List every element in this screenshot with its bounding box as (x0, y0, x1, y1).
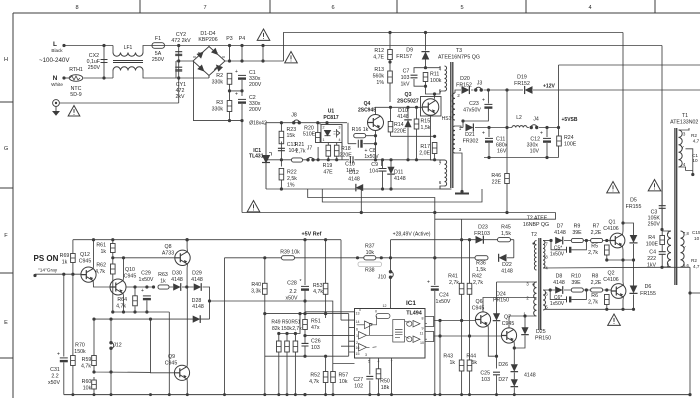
transformer T3 secondary upper (452, 93, 455, 120)
wires TL494 outputs (425, 317, 440, 342)
svg-text:4,7: 4,7 (693, 264, 700, 269)
wires C28 column (304, 240, 306, 314)
junction D24 bottom (495, 355, 498, 358)
svg-text:D23: D23 (478, 225, 488, 231)
wire emitter rail 2 (545, 308, 634, 310)
inductor L2 (512, 126, 527, 128)
R51 labels (311, 319, 321, 332)
resistor R20 (316, 133, 321, 143)
C15 labels (691, 230, 700, 269)
wire D12 drop (360, 189, 362, 213)
svg-text:4,7k: 4,7k (81, 364, 91, 370)
junction bank bottom (228, 119, 244, 122)
svg-text:R38: R38 (365, 268, 375, 274)
svg-text:2: 2 (457, 93, 460, 98)
T3 labels (438, 48, 480, 61)
svg-text:C9: C9 (371, 162, 378, 168)
svg-text:R39 10k: R39 10k (280, 250, 300, 256)
svg-text:R43: R43 (443, 354, 453, 360)
wire x224 column (224, 258, 226, 395)
Q4 labels (358, 101, 376, 114)
svg-text:2,7k: 2,7k (296, 148, 306, 154)
wire R22 bottom (280, 180, 282, 189)
T1 labels (670, 113, 700, 126)
transformer T3 primary upper (445, 66, 447, 91)
svg-text:C4106: C4106 (603, 277, 619, 283)
diode D26 (511, 364, 519, 371)
wire T1 aux pin4 (679, 167, 686, 171)
svg-text:R18: R18 (341, 146, 351, 152)
svg-text:4: 4 (588, 5, 591, 11)
wires D10 R15 columns (391, 107, 417, 160)
F1 labels (152, 36, 165, 63)
svg-text:R7: R7 (593, 224, 600, 230)
junction R63 left (152, 285, 155, 288)
capacitor C13 (278, 148, 285, 150)
wires row B (543, 289, 611, 291)
warning triangle near earth (68, 106, 80, 117)
D1-D4 labels (198, 31, 217, 43)
T2 winding right lower (543, 290, 546, 310)
wire CX2 vertical (103, 46, 105, 79)
svg-text:5D-9: 5D-9 (70, 92, 81, 98)
transistor Q10 (110, 279, 126, 295)
svg-text:1x50V: 1x50V (550, 252, 565, 258)
wire sec upper ends (455, 90, 461, 93)
svg-text:4148: 4148 (192, 304, 204, 310)
wire C27 bottom (369, 381, 371, 395)
junction R9 R7 (585, 239, 588, 242)
svg-text:39E: 39E (572, 230, 582, 236)
thermistor RTH1 (69, 75, 83, 82)
svg-text:R59: R59 (82, 357, 92, 363)
wire J10 column (390, 240, 392, 309)
junction CX2 nodes (102, 44, 105, 80)
svg-text:C4106: C4106 (603, 226, 619, 232)
R43 labels (443, 354, 455, 367)
svg-text:3: 3 (459, 147, 462, 152)
D27 labels (498, 377, 508, 383)
Q1 labels (603, 220, 619, 233)
Q12 labels (79, 252, 92, 265)
svg-text:R62: R62 (96, 263, 106, 269)
svg-text:C945: C945 (165, 361, 178, 367)
svg-text:R2: R2 (216, 73, 223, 79)
svg-text:RTH1: RTH1 (69, 67, 83, 73)
wire mid control rail (113, 257, 475, 259)
wires row A (564, 240, 610, 242)
svg-text:J10: J10 (378, 275, 387, 281)
wire Q10 collector (122, 258, 125, 281)
wires 12V row (471, 89, 523, 91)
wires R53 column (325, 240, 327, 314)
svg-text:R14: R14 (394, 122, 404, 128)
wires J12 column (110, 319, 112, 395)
C13 labels (287, 142, 298, 154)
resistor R11 (423, 73, 428, 82)
wires C23 cell (463, 90, 488, 128)
svg-text:"14"Gray: "14"Gray (38, 268, 58, 274)
svg-text:15: 15 (356, 352, 360, 356)
wires output rows (440, 321, 502, 337)
jumper J4 (530, 125, 539, 129)
resistor R15 (414, 119, 419, 129)
capacitor C1 (238, 75, 246, 79)
junction mid bank (228, 89, 244, 92)
svg-text:D12: D12 (349, 170, 359, 176)
svg-text:1,5k: 1,5k (476, 267, 486, 273)
resistor R39 (282, 256, 295, 260)
svg-text:102: 102 (354, 384, 363, 390)
svg-text:82k: 82k (272, 326, 281, 332)
wire pin4 long (662, 266, 690, 268)
junction D29 branch (208, 299, 307, 302)
svg-text:1%: 1% (376, 80, 384, 86)
wires bank bottom (194, 61, 243, 121)
svg-text:D28: D28 (192, 298, 202, 304)
junctions 5VRef (186, 238, 328, 241)
svg-text:FR103: FR103 (474, 231, 490, 237)
R49 R50 R51 labels (271, 320, 302, 333)
svg-text:4,7k: 4,7k (309, 379, 319, 385)
wires C26 column (304, 336, 306, 357)
warning triangle left bus (607, 182, 620, 193)
junctions feedback top (280, 121, 329, 124)
jumper J12 (109, 341, 113, 350)
svg-text:E: E (4, 320, 8, 326)
svg-text:C945: C945 (502, 321, 515, 327)
svg-text:C24: C24 (439, 293, 449, 299)
svg-text:R42: R42 (472, 274, 482, 280)
wire RTH1 to LF1 (84, 77, 114, 79)
svg-text:x50V: x50V (48, 380, 60, 386)
resistor R6 (605, 295, 610, 305)
svg-text:1x50V: 1x50V (364, 154, 379, 160)
D25 labels (535, 329, 551, 342)
svg-text:R51: R51 (311, 319, 321, 325)
diode D10 (404, 120, 412, 127)
svg-text:10: 10 (694, 236, 700, 241)
R2 labels (212, 73, 224, 86)
svg-text:2SC5027: 2SC5027 (397, 99, 419, 105)
capacitor C3 (659, 206, 666, 209)
svg-text:47E: 47E (323, 170, 333, 176)
D19 labels (514, 75, 530, 88)
svg-text:250V: 250V (648, 222, 661, 228)
svg-text:2: 2 (356, 341, 358, 345)
svg-text:*: * (300, 279, 302, 285)
svg-text:4148: 4148 (554, 230, 566, 236)
resistor R70 (71, 356, 76, 366)
R14 labels (394, 122, 407, 135)
wires D29 corner (169, 287, 333, 372)
T1 aux pin labels (681, 132, 686, 168)
wires R43 R44 bottoms (462, 371, 470, 395)
fuse F1 (152, 43, 165, 49)
svg-text:P4: P4 (239, 36, 246, 42)
svg-text:2,7k: 2,7k (473, 280, 483, 286)
wire D23 row (391, 239, 514, 241)
svg-text:C945: C945 (124, 274, 137, 280)
svg-text:J12: J12 (113, 343, 122, 349)
wire bridge minus (176, 60, 193, 62)
junctions row 313 (263, 312, 327, 315)
R44 labels (466, 354, 477, 367)
svg-text:11: 11 (420, 331, 424, 335)
diode D7 (555, 237, 563, 245)
svg-text:FR152: FR152 (456, 82, 472, 88)
wires R69 column (72, 240, 74, 275)
svg-text:250V: 250V (88, 65, 101, 71)
svg-text:2,7k: 2,7k (292, 326, 302, 332)
T1 core (675, 128, 677, 285)
jumper J10 (389, 270, 393, 279)
svg-text:G: G (4, 146, 8, 152)
wire row 3562 (265, 355, 349, 357)
TL494 pin numbers (356, 312, 368, 358)
transistor Q3 (422, 99, 439, 116)
C3 labels (648, 210, 661, 228)
svg-text:FR155: FR155 (626, 204, 642, 210)
resistor R49 (277, 341, 282, 352)
resistor R13 (388, 71, 393, 83)
junction D7 in (549, 239, 552, 242)
svg-text:KBP206: KBP206 (198, 37, 217, 43)
C28 labels2 (286, 289, 298, 301)
svg-text:Q2: Q2 (607, 271, 614, 277)
wire Q10 emitter rail (122, 293, 125, 312)
C10 labels (345, 162, 355, 175)
wire bridge minus stub (175, 61, 177, 78)
C11 labels (496, 137, 508, 155)
capacitor CY1 extra plate (175, 70, 182, 72)
junctions on plus rail (228, 59, 265, 62)
wire trio top row (279, 333, 296, 335)
svg-text:8: 8 (422, 317, 424, 321)
svg-text:R12: R12 (374, 48, 384, 54)
R6 labels (588, 293, 598, 306)
wires C10 row (341, 143, 343, 148)
svg-text:47x: 47x (311, 325, 320, 331)
wires R57 column (333, 364, 355, 395)
wires T3 lower primary (440, 160, 445, 189)
svg-text:2kV: 2kV (175, 94, 185, 100)
capacitor C25 (493, 372, 500, 375)
capacitor C23 (484, 104, 492, 108)
R21 labels (295, 142, 306, 154)
wire D5 stub (623, 223, 634, 235)
wire R46 column (506, 90, 508, 213)
svg-text:4148: 4148 (501, 269, 513, 275)
svg-text:560k: 560k (373, 74, 385, 80)
svg-text:L: L (53, 41, 57, 48)
wires D26 D27 column (513, 361, 515, 395)
R53 labels (313, 283, 324, 295)
svg-text:PR150: PR150 (535, 336, 551, 342)
wire Q4 emitter (375, 131, 377, 160)
D10 labels (397, 108, 409, 120)
RTH1 labels (69, 67, 83, 98)
C24 labels (436, 293, 451, 306)
wire sec bottom rail (484, 157, 559, 159)
svg-text:2,2E: 2,2E (591, 280, 602, 286)
svg-text:R9: R9 (574, 224, 581, 230)
junctions gnd rail (360, 211, 509, 214)
wire R4 C4 col (661, 245, 663, 252)
wire pin4 top (426, 66, 441, 68)
junction CY nodes (177, 44, 180, 80)
wires TL494 bottom stubs (370, 358, 392, 395)
wire R50 bottom (378, 379, 380, 395)
svg-text:HS1: HS1 (442, 116, 452, 122)
svg-text:7: 7 (203, 5, 206, 11)
R17 labels (419, 144, 430, 157)
wires T2 left pins (536, 282, 539, 316)
svg-text:D9: D9 (406, 48, 413, 54)
junctions row 3562 (303, 355, 327, 358)
svg-text:D21: D21 (465, 132, 475, 138)
svg-text:C25: C25 (480, 371, 490, 377)
R40 labels (251, 282, 261, 295)
svg-text:T2 ATEE: T2 ATEE (527, 216, 548, 222)
svg-text:R3: R3 (216, 100, 223, 106)
junctions Q7 pin1 (513, 314, 527, 349)
svg-text:100E: 100E (646, 242, 659, 248)
svg-text:C27: C27 (353, 377, 363, 383)
junction Q3 collector (433, 92, 436, 95)
C6 labels (550, 295, 565, 307)
capacitor C11 (485, 138, 493, 142)
svg-text:D6: D6 (645, 284, 652, 290)
resistor R23 (279, 131, 284, 144)
junctions D23 row (460, 238, 471, 241)
svg-text:3,3k: 3,3k (251, 289, 261, 295)
svg-text:+: + (427, 280, 430, 286)
svg-text:10: 10 (420, 341, 424, 345)
svg-text:15k: 15k (287, 133, 296, 139)
C2 labels (249, 95, 262, 113)
Q6 labels (472, 299, 485, 312)
R10 labels (571, 274, 581, 287)
svg-text:D8: D8 (556, 274, 563, 280)
svg-text:510E: 510E (303, 132, 316, 138)
R18 labels (340, 146, 353, 159)
R57 labels (339, 373, 349, 386)
svg-text:6: 6 (331, 5, 334, 11)
svg-text:R64: R64 (117, 297, 127, 303)
wires T3 secondary ends (455, 126, 463, 189)
D23 labels (474, 225, 490, 238)
IC1 TL494 box (355, 309, 426, 359)
Q7 labels (502, 315, 515, 328)
svg-text:J8: J8 (291, 113, 297, 119)
svg-text:R37: R37 (365, 244, 375, 250)
svg-text:Q10: Q10 (125, 267, 135, 273)
svg-text:R5: R5 (591, 244, 598, 250)
C25 labels (480, 371, 490, 384)
resistor R37 (364, 256, 376, 260)
svg-text:R60: R60 (82, 379, 92, 385)
svg-text:Q6: Q6 (475, 299, 482, 305)
optocoupler U1 (321, 125, 342, 143)
resistor R53 (323, 283, 328, 294)
bridge connection wires (143, 46, 209, 79)
svg-text:16NBP QG: 16NBP QG (523, 222, 549, 228)
resistor R8 (591, 288, 603, 292)
junctions emitter rail2 (605, 308, 635, 311)
svg-text:R69: R69 (60, 253, 70, 259)
resistor R41 (459, 283, 464, 294)
svg-text:Q3: Q3 (405, 92, 412, 98)
svg-text:4,7E: 4,7E (373, 55, 384, 61)
earth ground symbol (53, 107, 59, 116)
transformer T3 secondary (453, 126, 455, 153)
resistor R59 (92, 356, 97, 366)
capacitor C29 (143, 296, 151, 300)
transistor Q7 (501, 328, 516, 343)
svg-text:LF1: LF1 (124, 45, 133, 51)
svg-text:D5: D5 (630, 198, 637, 204)
wire R40 bottom (264, 294, 266, 394)
svg-text:~100-240V: ~100-240V (39, 57, 70, 64)
svg-text:4,7: 4,7 (693, 139, 700, 144)
svg-text:2,7k: 2,7k (588, 300, 598, 306)
capacitor C24 (431, 286, 439, 290)
svg-text:330k: 330k (212, 80, 224, 86)
D30 labels (171, 271, 183, 284)
junction C24 top (433, 256, 436, 259)
R9 labels (572, 224, 582, 237)
wires C5 loop (551, 241, 586, 250)
capacitor C8 (358, 140, 362, 148)
diode D25 (521, 327, 529, 334)
svg-text:9: 9 (422, 326, 424, 330)
svg-text:R11: R11 (430, 72, 439, 78)
svg-text:F1: F1 (155, 36, 161, 42)
D21 labels (463, 132, 479, 144)
junction C23 nodes (461, 88, 508, 122)
svg-text:R41: R41 (448, 274, 458, 280)
resistor R21 (292, 158, 303, 162)
svg-text:T1: T1 (682, 113, 688, 119)
resistor R5 (605, 245, 610, 255)
IC1 TL494 labels (406, 300, 416, 307)
wires Q6 cell (483, 282, 537, 369)
svg-text:1k: 1k (100, 249, 106, 255)
wire HV rail (263, 45, 662, 47)
R45 labels (501, 225, 511, 238)
svg-text:D19: D19 (517, 75, 527, 81)
capacitor C31 (60, 358, 68, 362)
resistor R43 (459, 360, 464, 371)
R4 labels (646, 235, 659, 248)
svg-text:4: 4 (683, 162, 686, 167)
wire bridge plus to riser (225, 60, 284, 62)
bridge rectifier D1-D4 (193, 47, 225, 76)
wire primary gnd drop (241, 121, 243, 213)
diode D21 (466, 123, 474, 131)
svg-text:Q1: Q1 (608, 220, 615, 226)
junctions y372 (92, 370, 112, 373)
diode D27 (511, 379, 519, 386)
svg-text:C29: C29 (141, 271, 151, 277)
capacitor C12 (543, 138, 551, 142)
resistor R22 (279, 168, 284, 180)
resistor R61 (111, 244, 116, 253)
junctions PS ON wire (62, 273, 74, 276)
resistor R64 (133, 296, 138, 306)
junctions trio top (277, 332, 297, 335)
